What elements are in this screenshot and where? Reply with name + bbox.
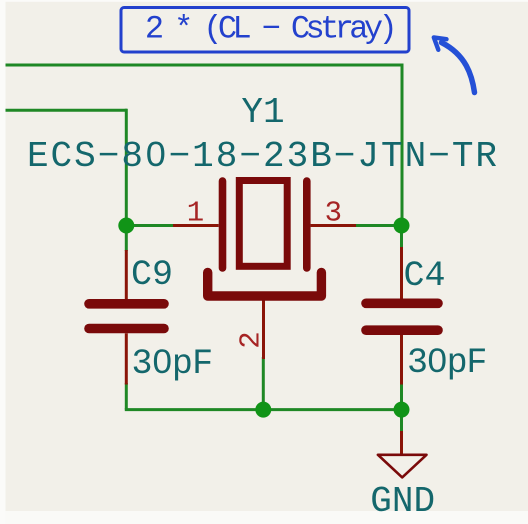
value 30pF of C9 — [132, 344, 213, 384]
svg-text:GND: GND — [370, 481, 435, 522]
crystal Y1 pin 1 lead — [173, 224, 219, 227]
wire bottom rail — [125, 408, 402, 411]
svg-text:Y1: Y1 — [241, 92, 284, 133]
annotation text — [145, 11, 393, 48]
crystal Y1 pin 3 lead — [311, 224, 356, 227]
junction node A — [118, 218, 134, 234]
svg-text:C4: C4 — [404, 256, 446, 296]
junction rail middle — [255, 402, 271, 418]
wire rail to GND — [400, 410, 403, 432]
svg-text:2 * (CL − Cstray): 2 * (CL − Cstray) — [145, 11, 393, 48]
annotation box 2*(CL-Cstray) — [121, 8, 409, 53]
wire node A to crystal pin 1 — [126, 224, 174, 227]
crystal Y1 pin 2 lead — [262, 298, 265, 359]
capacitor C4 bottom lead — [400, 335, 403, 385]
ground pin lead — [400, 431, 403, 454]
svg-text:C9: C9 — [131, 255, 173, 295]
capacitor C4 top plate — [366, 298, 438, 308]
crystal Y1 body rectangle — [239, 181, 287, 267]
wire node A to C9 — [125, 226, 128, 252]
capacitor C4 top lead — [400, 247, 403, 299]
capacitor C9 top plate — [89, 299, 164, 309]
zero dot covers — [152, 148, 441, 364]
reference C4 — [404, 256, 446, 296]
value 30pF of C4 — [407, 343, 486, 383]
wire C9 to bottom rail — [125, 383, 128, 410]
reference C9 — [131, 255, 173, 295]
wire crystal pin 2 to rail — [262, 357, 265, 410]
wire right vertical — [401, 64, 404, 226]
pin number 2 — [235, 331, 268, 348]
crystal Y1 left electrode plate — [219, 181, 227, 268]
crystal Y1 right electrode plate — [303, 181, 311, 268]
pin number 1 — [187, 197, 204, 230]
svg-text:ECS−80−18−23B−JTN−TR: ECS−80−18−23B−JTN−TR — [27, 136, 499, 177]
svg-text:3: 3 — [325, 197, 342, 230]
ground label GND — [370, 481, 435, 522]
wire top horizontal — [5, 64, 402, 67]
capacitor C4 bottom plate — [366, 325, 438, 335]
junction node B — [394, 218, 410, 234]
capacitor C9 bottom plate — [89, 324, 164, 334]
svg-text:30pF: 30pF — [132, 344, 213, 384]
ground symbol — [378, 455, 427, 478]
wire left vertical — [125, 109, 128, 226]
junction rail right — [394, 402, 410, 418]
wire crystal pin 3 to node B — [355, 224, 402, 227]
wire node B to C4 — [400, 226, 403, 249]
reference Y1 — [241, 92, 284, 133]
svg-text:30pF: 30pF — [407, 343, 486, 383]
svg-text:1: 1 — [187, 197, 204, 230]
annotation arrow — [434, 37, 475, 92]
capacitor C9 bottom lead — [125, 333, 128, 384]
wire second horizontal — [5, 109, 127, 112]
pin number 3 — [325, 197, 342, 230]
crystal Y1 case bracket — [208, 273, 322, 297]
value ECS-80-18-23B-JTN-TR — [27, 136, 499, 177]
capacitor C9 top lead — [125, 250, 128, 299]
svg-text:2: 2 — [235, 331, 268, 348]
wire C4 to bottom rail — [400, 383, 403, 410]
